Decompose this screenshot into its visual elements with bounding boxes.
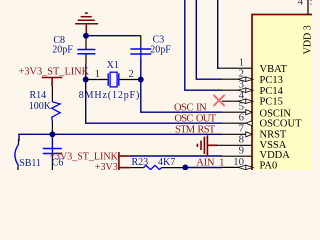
svg-text:VBAT: VBAT (260, 64, 288, 75)
svg-text:4K7: 4K7 (158, 157, 175, 168)
wire AIN_1 to pin 10 (183, 167, 222, 169)
node junction crystal right (138, 77, 144, 83)
pin 1 VBAT (218, 67, 252, 69)
svg-text:NRST: NRST (260, 129, 287, 140)
svg-text:20pF: 20pF (52, 45, 73, 56)
svg-text:5: 5 (310, 0, 312, 8)
pin 4 PC15 (222, 100, 252, 102)
pin VDD_3 (top pin) (307, 0, 309, 15)
resistor R14 (51, 87, 53, 102)
pin 3 PC14 (222, 89, 252, 91)
node junction AIN_1 (182, 165, 188, 171)
svg-text:4: 4 (298, 0, 304, 8)
pin 9 VDDA (222, 155, 252, 157)
svg-text:OSC IN: OSC IN (174, 102, 207, 113)
pin 7 NRST (222, 133, 252, 135)
svg-text:2: 2 (128, 68, 134, 80)
svg-text:OSCOUT: OSCOUT (260, 119, 303, 130)
svg-text:VDD 3: VDD 3 (302, 25, 312, 54)
wire PC14 vertical (185, 0, 222, 90)
pin 8 VSSA (218, 144, 253, 146)
svg-text:R14: R14 (30, 90, 47, 101)
svg-text:1: 1 (95, 68, 101, 80)
svg-text:10: 10 (233, 156, 244, 168)
svg-text:8MHz(12pF): 8MHz(12pF) (79, 90, 140, 101)
wire VBAT vertical (218, 0, 219, 68)
wire OSC_IN (141, 80, 222, 113)
svg-text:PA0: PA0 (260, 161, 278, 170)
svg-text:PC14: PC14 (260, 86, 284, 97)
capacitor C8 (85, 36, 87, 49)
svg-text:R23: R23 (132, 157, 149, 168)
svg-text:SB11: SB11 (19, 158, 41, 169)
capacitor C3 (140, 36, 142, 46)
capacitor C6 (51, 134, 53, 148)
wire VDDA (130, 155, 222, 157)
wire C8 to crystal junction (85, 64, 87, 80)
pin 5 OSCIN (222, 111, 252, 113)
no-ERC cross on pin 4 (214, 95, 224, 105)
svg-text:+3V3_ST_LINK: +3V3_ST_LINK (19, 67, 90, 78)
wire STM_RST horizontal (19, 134, 222, 141)
IC U1 body (252, 15, 320, 178)
svg-text:STM RST: STM RST (175, 125, 216, 136)
node junction top (83, 33, 89, 39)
svg-text:100K: 100K (29, 101, 52, 112)
svg-text:VDDA: VDDA (260, 150, 291, 161)
svg-text:OSC OUT: OSC OUT (174, 113, 216, 124)
ground (top) (75, 13, 98, 36)
resistor R23 (130, 167, 144, 169)
wire top horizontal (86, 35, 141, 37)
ground VSSA (rotated) (197, 135, 217, 155)
node junction R14/C6 (49, 131, 55, 137)
svg-text:PC15: PC15 (260, 96, 283, 107)
svg-text:+3V3: +3V3 (95, 162, 118, 170)
svg-text:X1: X1 (107, 60, 119, 71)
svg-text:20pF: 20pF (150, 44, 171, 55)
pin 6 OSCOUT (222, 122, 252, 124)
svg-text:9: 9 (239, 145, 244, 157)
wire OSC_OUT (86, 80, 222, 124)
svg-text:PC13: PC13 (260, 75, 283, 86)
node junction crystal left (83, 77, 89, 83)
wire PC13 vertical (196, 0, 222, 79)
wire C3 to crystal junction (140, 59, 142, 80)
solder bridge SB11 (18, 140, 20, 145)
sheet background (0, 0, 312, 170)
pin 2 PC13 (222, 78, 252, 80)
pin 10 PA0 (222, 166, 252, 168)
svg-text:AIN 1: AIN 1 (196, 157, 224, 168)
crystal X1 (86, 79, 108, 81)
